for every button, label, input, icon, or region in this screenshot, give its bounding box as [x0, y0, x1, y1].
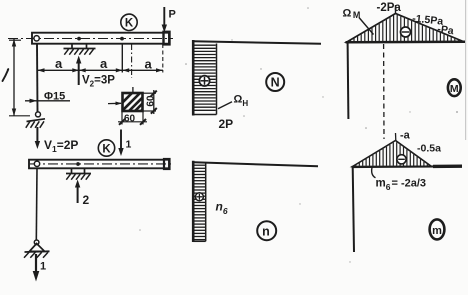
support B hatching: [66, 174, 70, 180]
diagram name circle m: [430, 219, 445, 239]
reaction arrow 2: [77, 184, 79, 203]
m baseline: [352, 165, 463, 168]
svg-text:a: a: [100, 56, 108, 71]
m triangle hatching: [355, 164, 357, 167]
M diagram triangle: [347, 14, 465, 43]
section square hatching: [121, 92, 144, 115]
svg-text:V1=2P: V1=2P: [44, 138, 78, 154]
label l: [3, 69, 9, 81]
m left leg: [353, 167, 354, 252]
svg-text:K: K: [102, 143, 111, 155]
support triangle at rod bottom: [30, 244, 45, 252]
support C hatching: [24, 252, 29, 257]
diagram name circle M: [448, 79, 461, 96]
svg-text:-Pa: -Pa: [437, 23, 455, 37]
svg-text:-a: -a: [400, 130, 411, 142]
extension line from node K: [121, 44, 123, 73]
svg-text:M: M: [450, 83, 459, 95]
N block hatching: [194, 44, 216, 46]
beam B2 right end cap: [164, 159, 170, 169]
guided support B under beam B2: [71, 169, 73, 173]
svg-text:a: a: [145, 57, 153, 72]
svg-text:m: m: [432, 225, 442, 237]
n diagram left edge: [192, 161, 195, 242]
svg-text:1: 1: [126, 139, 132, 151]
N diagram left edge: [192, 40, 195, 116]
svg-text:P: P: [169, 9, 176, 21]
svg-text:n: n: [262, 224, 270, 238]
svg-text:N: N: [271, 76, 280, 90]
svg-text:-0.5a: -0.5a: [417, 143, 441, 155]
svg-text:60: 60: [146, 95, 157, 107]
m peak tick: [395, 133, 397, 141]
dimension line a+a+a: [37, 69, 163, 71]
beam B2: [29, 160, 169, 169]
svg-text:-2Pa: -2Pa: [377, 2, 402, 14]
peak tick: [395, 5, 397, 14]
reaction arrow V1: [36, 127, 38, 144]
reaction arrow V2: [78, 60, 80, 85]
section right dim 60: [143, 92, 156, 94]
diagram name circle N: [266, 73, 284, 91]
M left leg: [347, 42, 350, 119]
plus sign circle in N block: [199, 76, 209, 86]
svg-text:a: a: [55, 56, 63, 71]
hinge support at column base: [27, 119, 46, 122]
section left leader: [108, 102, 121, 104]
diagram name circle n: [257, 221, 276, 240]
pin at rod bottom: [34, 240, 39, 245]
hanger rod under beam B2 left end: [35, 169, 38, 241]
M triangle hatching: [349, 40, 351, 43]
svg-text:ΩH: ΩH: [234, 94, 249, 109]
load arrow 1 on beam B2: [120, 130, 122, 152]
dimension line l: [13, 39, 15, 116]
minus sign circle in m: [397, 155, 406, 164]
beam B1 right end cap: [164, 32, 170, 45]
svg-text:K: K: [125, 18, 134, 30]
column under beam B1 left end: [36, 44, 39, 112]
svg-text:ΩM: ΩM: [343, 8, 361, 21]
scan noise specks: [185, 63, 187, 65]
scan page edge: [465, 0, 467, 140]
reaction arrow 1 at support C: [35, 254, 37, 274]
dimension phi15 line: [25, 100, 70, 102]
n diagram frame top line: [194, 162, 318, 166]
plus sign circle in n block: [195, 193, 203, 201]
load arrow P: [163, 7, 165, 28]
M baseline: [346, 41, 466, 44]
beam B1: [32, 33, 169, 44]
pin at column base: [36, 112, 41, 117]
minus sign circle in M: [401, 27, 411, 37]
svg-text:2P: 2P: [219, 117, 234, 131]
guided support A under beam B1: [71, 44, 73, 49]
leader to Omega_H: [218, 102, 232, 109]
leader to m6 label: [372, 168, 376, 178]
m diagram triangle: [353, 141, 432, 167]
extension line at beam B1 right end: [162, 44, 164, 73]
N diagram frame top line: [193, 41, 321, 44]
svg-text:V2=3P: V2=3P: [82, 75, 115, 89]
svg-text:2: 2: [83, 193, 90, 207]
beam B2 centerline: [30, 163, 172, 165]
dashed section line: [383, 44, 385, 139]
section square 60x60: [123, 93, 143, 111]
node over support A: [77, 37, 81, 41]
pin at beam B1 left end: [34, 36, 39, 41]
svg-text:n6: n6: [216, 200, 228, 217]
leader from Omega_M: [359, 18, 374, 35]
section top tick: [132, 87, 134, 93]
svg-text:Φ15: Φ15: [44, 91, 65, 103]
beam B1 centerline: [8, 38, 173, 40]
section trace centerline to square section: [131, 44, 133, 78]
section label circle K: [121, 14, 137, 30]
n block outline: [205, 163, 207, 241]
svg-text:60: 60: [124, 114, 136, 125]
node over support B: [76, 162, 80, 166]
m baseline thick right part: [433, 164, 462, 168]
section label circle K2: [98, 140, 114, 156]
n block hatching: [194, 164, 205, 166]
pin at beam B2 left end: [34, 161, 39, 166]
svg-text:m6= -2a/3: m6= -2a/3: [376, 178, 427, 193]
support A hatching: [64, 49, 68, 55]
svg-text:1: 1: [40, 261, 46, 273]
node at section K: [120, 37, 124, 41]
N diagram block outline: [216, 44, 218, 115]
section bottom dim 60: [121, 112, 123, 125]
